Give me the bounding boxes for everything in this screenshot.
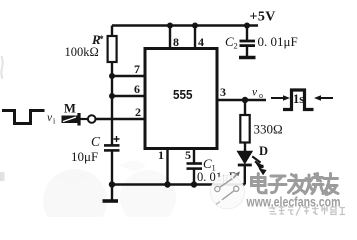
capacitor C2 — [240, 26, 256, 57]
wire pin 7 — [112, 75, 145, 77]
svg-text:6: 6 — [134, 82, 140, 96]
node junction pin4 rail — [192, 23, 198, 29]
svg-text:330Ω: 330Ω — [254, 122, 283, 137]
node junction pin1 bus — [164, 181, 170, 187]
svg-text:D: D — [259, 144, 268, 158]
capacitor C1 — [187, 164, 203, 185]
faint watermark mark left edge — [0, 172, 5, 181]
capacitor C (10uF) — [104, 145, 120, 184]
svg-text:555: 555 — [173, 87, 193, 102]
bottom ground bus — [112, 183, 245, 185]
svg-text:*: * — [99, 35, 104, 45]
+5V power rail — [112, 24, 258, 26]
watermark small caption 头条号/技术出品 — [269, 206, 346, 216]
node junction C1 bus — [191, 181, 197, 187]
input pulse waveform vi — [2, 111, 45, 124]
watermark text 电子发烧友 (hand-drawn strokes) — [251, 173, 339, 195]
LED emission arrows — [252, 156, 266, 175]
node junction pin3 — [242, 97, 248, 103]
watermark disc icon — [211, 172, 245, 210]
node junction pin7 — [109, 73, 115, 79]
svg-text:0. 01μF: 0. 01μF — [258, 34, 298, 49]
node junction pin8 rail — [167, 23, 173, 29]
faint watermark squiggle upper left edge — [1, 56, 2, 79]
svg-text:+5V: +5V — [250, 10, 276, 25]
svg-text:C: C — [91, 134, 101, 149]
wire pin 8 — [169, 26, 171, 49]
svg-text:v: v — [252, 87, 258, 99]
wire pin 2 — [96, 118, 146, 120]
wire pin 4 — [194, 26, 196, 49]
svg-text:2: 2 — [135, 105, 141, 119]
svg-text:8: 8 — [173, 35, 179, 49]
node junction pin6 — [109, 93, 115, 99]
svg-text:4: 4 — [198, 35, 204, 49]
output pulse symbol 1s — [271, 90, 333, 110]
svg-text:o: o — [259, 91, 263, 100]
svg-text:1: 1 — [158, 148, 164, 162]
ground C2 — [239, 56, 256, 60]
svg-text:2: 2 — [234, 41, 238, 51]
wire pin 1 — [166, 149, 168, 185]
wire pin 3 output — [217, 99, 266, 101]
wire pin 6 — [112, 95, 145, 97]
node junction ground stub — [109, 181, 115, 187]
node junction C2 rail — [244, 23, 250, 29]
svg-text:100kΩ: 100kΩ — [65, 45, 99, 59]
wire left bus (R/C junction to pins 7,6 and C) — [111, 76, 113, 145]
svg-text:10μF: 10μF — [71, 149, 98, 164]
svg-text:7: 7 — [134, 62, 140, 76]
resistor R2 (330Ω) — [240, 100, 249, 152]
ground — [103, 185, 119, 202]
pushbutton M — [62, 113, 96, 126]
wire pin 5 — [193, 149, 195, 164]
polarity mark + — [114, 136, 120, 142]
svg-text:5: 5 — [185, 148, 191, 162]
faint background watermark blob bottom-left — [43, 161, 176, 233]
LED D — [238, 152, 252, 185]
svg-text:M: M — [64, 101, 76, 115]
resistor R1 (R*) — [108, 26, 117, 77]
svg-text:3: 3 — [220, 85, 226, 99]
svg-text:1s: 1s — [293, 92, 304, 106]
IC U1 555 timer — [145, 49, 217, 149]
